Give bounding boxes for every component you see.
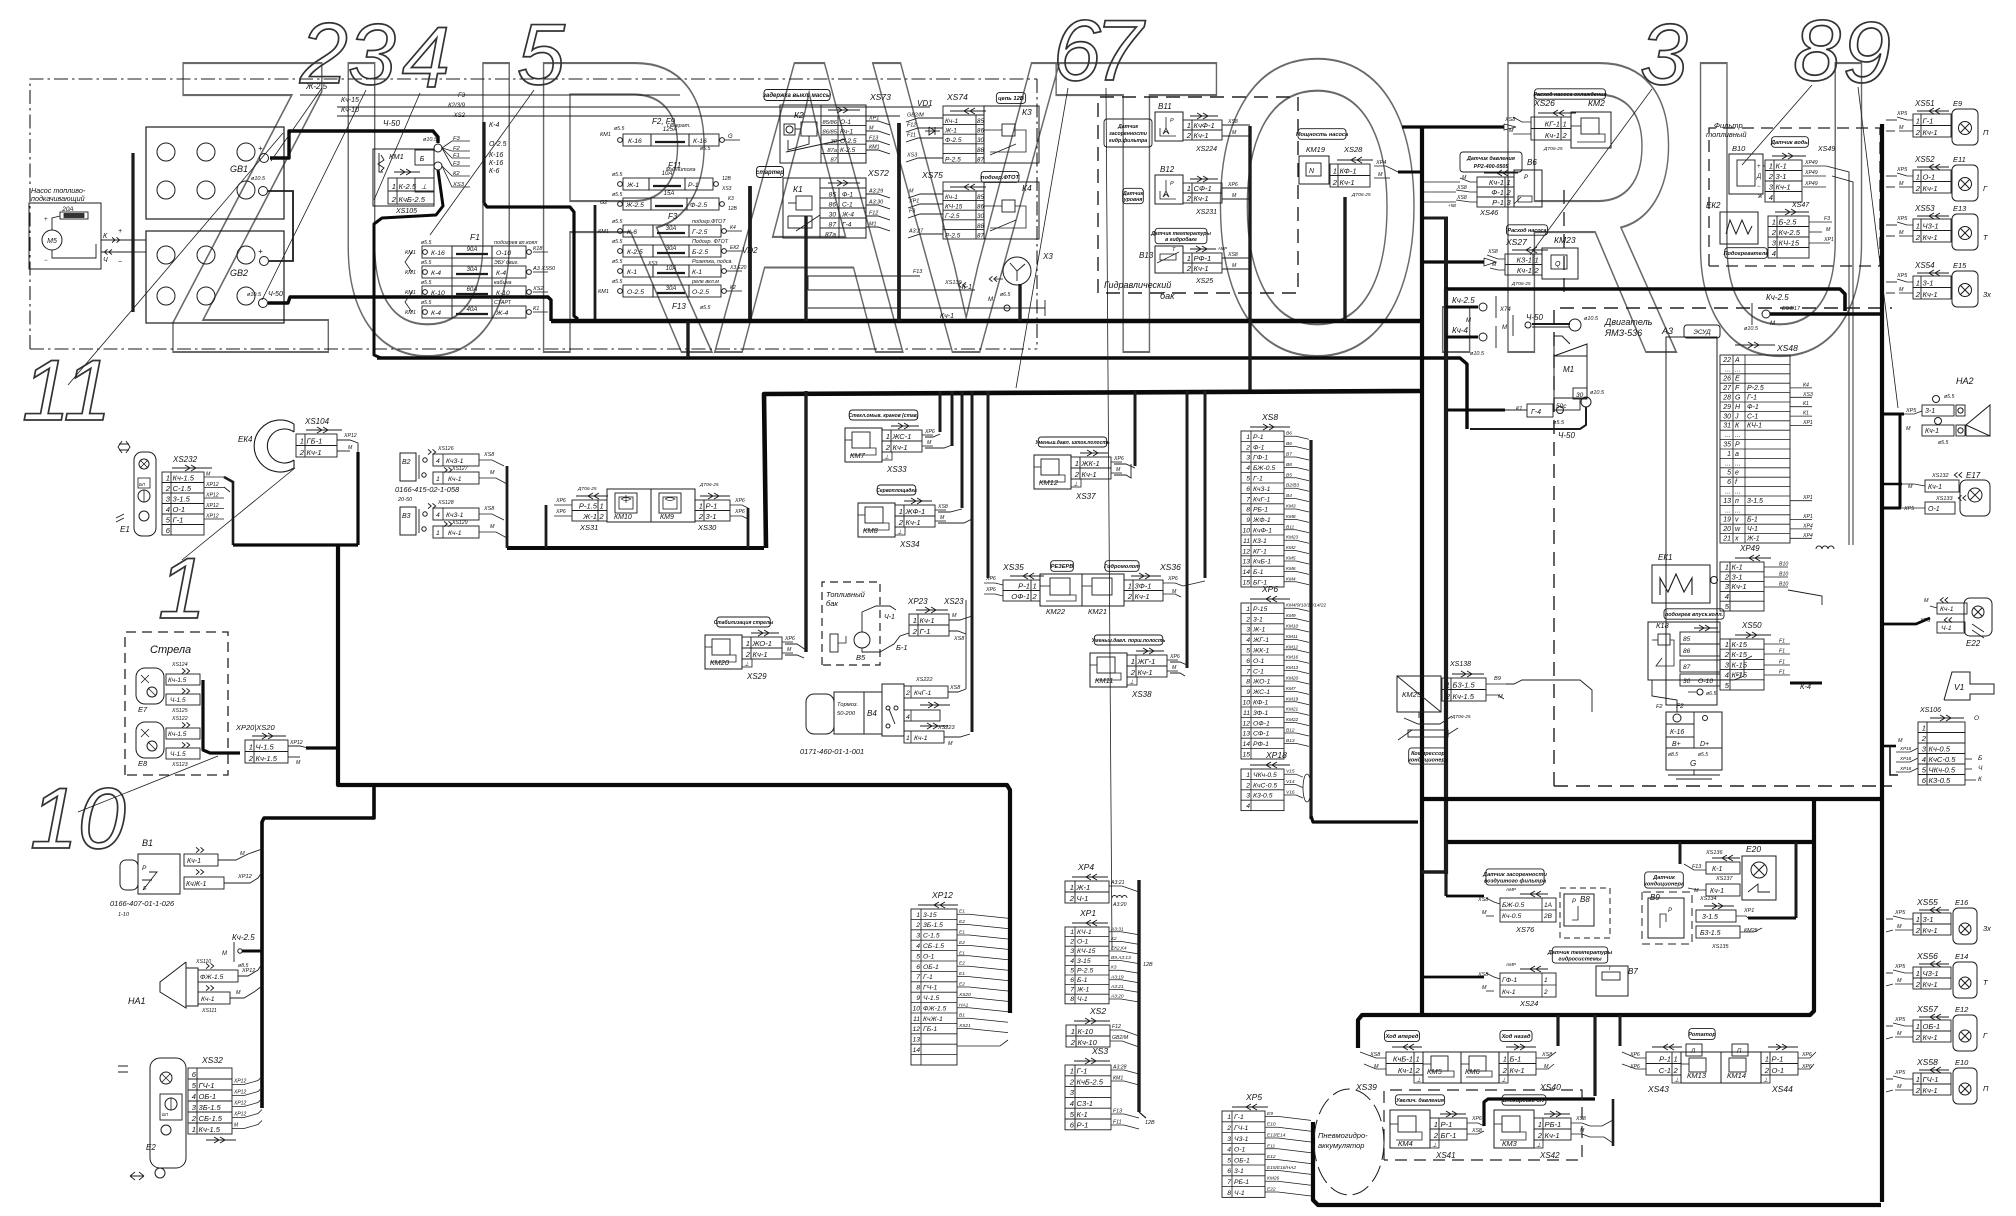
svg-text:Ж-1: Ж-1 [1746, 536, 1760, 543]
svg-text:Кч-1: Кч-1 [1940, 606, 1954, 613]
svg-text:ХР49: ХР49 [1804, 170, 1818, 176]
svg-text:11: 11 [1243, 710, 1250, 717]
svg-text:3-1.5: 3-1.5 [1747, 498, 1763, 505]
riser E20 x1680 [1679, 842, 1682, 864]
svg-text:ХР1: ХР1 [908, 199, 919, 205]
svg-text:2: 2 [745, 650, 751, 659]
svg-text:кабина: кабина [494, 280, 512, 286]
svg-text:ХР5: ХР5 [1896, 273, 1908, 279]
relay K3 box [984, 106, 1039, 163]
svg-text:⊥: ⊥ [1674, 1077, 1679, 1084]
svg-text:КМ2: КМ2 [1588, 98, 1605, 108]
svg-text:Е10: Е10 [1267, 1122, 1276, 1128]
svg-text:О-1: О-1 [1253, 658, 1265, 665]
svg-text:М: М [236, 990, 241, 996]
svg-text:К-1: К-1 [1776, 161, 1787, 170]
svg-text:XS38: XS38 [1131, 690, 1152, 699]
svg-text:К-4: К-4 [431, 310, 441, 317]
svg-text:4: 4 [1246, 637, 1250, 644]
svg-text:КМ11: КМ11 [1286, 634, 1298, 640]
svg-text:F3: F3 [458, 93, 466, 99]
svg-text:F3: F3 [1824, 216, 1830, 222]
svg-text:4: 4 [1725, 592, 1729, 601]
svg-text:К3: К3 [728, 196, 734, 202]
svg-text:87: 87 [829, 221, 837, 228]
svg-text:30: 30 [1723, 413, 1731, 420]
svg-text:С-1: С-1 [1747, 413, 1758, 420]
svg-text:С-1: С-1 [1253, 668, 1264, 675]
svg-text:12: 12 [1242, 720, 1250, 727]
svg-text:О-1: О-1 [1923, 172, 1936, 181]
svg-text:М: М [909, 189, 914, 195]
svg-text:1: 1 [1507, 178, 1511, 187]
svg-text:XS110: XS110 [195, 959, 211, 965]
svg-text:КчБ-2.5: КчБ-2.5 [399, 195, 426, 204]
XS75 table [950, 186, 986, 188]
svg-text:М5: М5 [47, 238, 57, 245]
svg-text:30: 30 [977, 137, 984, 144]
svg-text:1: 1 [600, 501, 604, 510]
svg-text:Ч-1.5: Ч-1.5 [170, 697, 186, 704]
svg-text:М: М [1172, 665, 1177, 671]
svg-text:ø5.5: ø5.5 [612, 239, 622, 245]
svg-text:9: 9 [1246, 517, 1250, 524]
svg-text:12В: 12В [1143, 962, 1153, 968]
svg-text:2: 2 [1245, 782, 1250, 789]
svg-text:В7: В7 [1628, 967, 1638, 976]
svg-text:2: 2 [391, 195, 397, 204]
bus y1099 KM4/KM3 [1484, 1099, 1595, 1126]
svg-text:засоренности: засоренности [1109, 131, 1148, 137]
svg-text:1: 1 [1227, 1114, 1231, 1121]
svg-text:4: 4 [1772, 249, 1776, 258]
svg-text:КМ10: КМ10 [614, 514, 632, 521]
svg-text:ЕК2: ЕК2 [1706, 201, 1721, 210]
svg-text:3-1: 3-1 [1253, 616, 1263, 623]
svg-text:XS8: XS8 [1575, 1116, 1586, 1122]
svg-text:XS222: XS222 [915, 677, 933, 683]
svg-text:ø5.5: ø5.5 [1944, 394, 1954, 400]
svg-text:Р-2.5: Р-2.5 [1077, 967, 1093, 974]
svg-text:1: 1 [1246, 772, 1250, 779]
svg-text:1: 1 [1070, 929, 1074, 936]
svg-text:Кч-1: Кч-1 [945, 194, 958, 201]
svg-text:ø6.5: ø6.5 [1706, 691, 1716, 697]
svg-text:О: О [1974, 715, 1979, 722]
svg-text:XS75: XS75 [921, 170, 943, 180]
svg-text:М1: М1 [1563, 365, 1574, 374]
svg-text:2: 2 [299, 448, 305, 457]
relay K2 (задержка выкл. массы) [764, 90, 830, 101]
svg-text:М: М [490, 470, 495, 476]
svg-text:12: 12 [912, 1026, 920, 1033]
svg-text:Кч-1: Кч-1 [1928, 484, 1942, 491]
svg-text:Кч-1: Кч-1 [840, 128, 853, 135]
svg-text:3: 3 [1246, 793, 1250, 800]
svg-text:В+: В+ [1672, 741, 1681, 748]
svg-text:...: ... [1735, 366, 1741, 373]
svg-text:Кч-1: Кч-1 [1398, 1066, 1413, 1075]
svg-text:V1: V1 [1954, 682, 1965, 692]
svg-text:4: 4 [1070, 958, 1074, 965]
svg-text:XS25: XS25 [1195, 278, 1213, 285]
svg-text:К3-1: К3-1 [1517, 255, 1532, 264]
svg-text:v: v [1735, 517, 1739, 524]
svg-text:3: 3 [1227, 1136, 1231, 1143]
svg-text:СТАРТ: СТАРТ [494, 300, 512, 306]
relay K1 (стартер) [757, 167, 784, 178]
svg-text:1: 1 [1071, 1027, 1075, 1036]
svg-text:бак: бак [1160, 291, 1175, 301]
svg-text:ЕК1: ЕК1 [1658, 553, 1673, 562]
svg-text:Кч-1: Кч-1 [1340, 178, 1355, 187]
svg-text:Кч-1.5: Кч-1.5 [168, 677, 187, 684]
svg-text:КМ8: КМ8 [1286, 514, 1296, 520]
svg-text:К-4: К-4 [489, 122, 499, 129]
svg-text:АМР: АМР [1505, 887, 1517, 892]
riser XS40 x1558 [1556, 1015, 1559, 1046]
svg-text:ХР5: ХР5 [1894, 910, 1906, 916]
K1 pin table XS72 [819, 178, 821, 238]
svg-text:1: 1 [1075, 459, 1079, 468]
svg-text:ХР6: ХР6 [784, 636, 795, 642]
svg-text:Кч-0.5: Кч-0.5 [1929, 744, 1951, 753]
terminal Г-4 К1 [1527, 404, 1553, 417]
svg-text:Кч-1: Кч-1 [914, 735, 928, 742]
svg-text:Х74: Х74 [1499, 307, 1511, 313]
svg-text:КМ7: КМ7 [1286, 686, 1296, 692]
svg-text:3Ф-1: 3Ф-1 [1253, 710, 1268, 717]
svg-text:V15: V15 [1286, 769, 1295, 775]
svg-text:Кч-1: Кч-1 [1732, 582, 1747, 591]
svg-text:V14: V14 [1286, 779, 1295, 785]
GB2 minus terminal [259, 299, 268, 308]
svg-text:Ф-1: Ф-1 [842, 191, 853, 198]
svg-text:В13: В13 [1139, 251, 1154, 260]
svg-text:+5В: +5В [1448, 203, 1456, 208]
svg-text:Ч-1: Ч-1 [1747, 526, 1758, 533]
relay KM12 connector XS37 (уменьш.давл. штокл.полость) [1038, 437, 1107, 447]
svg-text:КМ5: КМ5 [1427, 1067, 1443, 1076]
svg-text:F11: F11 [907, 133, 916, 139]
svg-text:М: М [490, 524, 495, 530]
right column main vertical bus x1882 [1880, 124, 1884, 1202]
KM23 thick stub from riser [1424, 260, 1484, 263]
svg-text:Кч-1: Кч-1 [1545, 1131, 1560, 1140]
svg-text:Е7: Е7 [138, 705, 148, 714]
svg-text:Е2: Е2 [146, 1143, 156, 1152]
svg-text:бак: бак [826, 599, 838, 608]
svg-text:4: 4 [1246, 803, 1250, 810]
svg-text:10: 10 [1242, 528, 1250, 535]
svg-text:1: 1 [1535, 255, 1539, 264]
svg-text:1: 1 [1765, 1054, 1769, 1063]
svg-text:КЧ-15: КЧ-15 [945, 204, 963, 211]
svg-text:12В: 12В [728, 206, 738, 212]
svg-text:ДТ06-25: ДТ06-25 [1351, 192, 1371, 198]
svg-text:3Б-1.5: 3Б-1.5 [923, 922, 943, 929]
bus riser x899 (XS72/73 area) [897, 123, 901, 321]
svg-text:К1: К1 [1803, 411, 1809, 417]
svg-text:2: 2 [248, 754, 254, 763]
svg-text:8: 8 [1793, 3, 1841, 99]
KM3 riser x1613 [1612, 1099, 1615, 1146]
svg-text:Кч-1: Кч-1 [940, 313, 954, 320]
svg-text:М: М [348, 445, 353, 451]
svg-text:XS8: XS8 [1456, 195, 1467, 201]
svg-text:4: 4 [1070, 1099, 1074, 1108]
svg-text:ХР5: ХР5 [1896, 111, 1908, 117]
Кч-2.5 stub with terminal X74 [1446, 306, 1478, 309]
svg-text:XS3: XS3 [721, 186, 732, 192]
svg-text:КМ13: КМ13 [1687, 1071, 1707, 1080]
GB1 plus terminal [260, 154, 269, 163]
svg-text:⊥: ⊥ [1536, 1142, 1541, 1149]
svg-text:87а: 87а [825, 231, 836, 238]
svg-text:К-16: К-16 [489, 152, 503, 159]
svg-text:Б-2.5: Б-2.5 [1779, 217, 1798, 226]
svg-text:БЛ: БЛ [162, 1112, 169, 1117]
svg-text:КчБ-1: КчБ-1 [1393, 1054, 1413, 1063]
svg-text:КМ2: КМ2 [1286, 545, 1296, 551]
svg-text:ХР49: ХР49 [1739, 544, 1760, 553]
svg-text:К-6: К-6 [489, 168, 499, 175]
svg-text:7: 7 [916, 974, 920, 981]
svg-text:Р: Р [1524, 175, 1528, 181]
svg-text:14: 14 [912, 1047, 920, 1054]
inductor symbol at XS48 w-x rows [1816, 546, 1834, 549]
svg-text:РФ-1: РФ-1 [1194, 254, 1212, 263]
svg-text:ЖФ-1: ЖФ-1 [905, 507, 926, 516]
svg-text:−: − [1757, 184, 1761, 190]
svg-text:F1: F1 [1779, 639, 1785, 645]
svg-text:ХР1: ХР1 [1802, 514, 1813, 520]
svg-text:Уменьш.давл. порш.полость: Уменьш.давл. порш.полость [1092, 638, 1166, 644]
svg-text:Пневмогидро-: Пневмогидро- [1318, 1131, 1368, 1140]
svg-text:КчФ-1: КчФ-1 [1253, 528, 1272, 535]
svg-text:ХР5: ХР5 [1894, 1017, 1906, 1023]
svg-text:Г-1: Г-1 [1747, 395, 1757, 402]
svg-text:3Ф-1: 3Ф-1 [1135, 581, 1152, 590]
svg-text:ø10.5: ø10.5 [423, 137, 438, 143]
svg-text:Кч-1: Кч-1 [1517, 266, 1532, 275]
svg-text:Тормоз.: Тормоз. [837, 702, 858, 708]
valve KM4 XS41 [1390, 1110, 1430, 1148]
XS222 riser thin [965, 600, 967, 689]
svg-text:6: 6 [916, 964, 920, 971]
svg-text:Ж-1: Ж-1 [626, 182, 639, 189]
svg-text:2: 2 [1915, 1033, 1921, 1042]
svg-text:Е9/Е17: Е9/Е17 [1782, 306, 1801, 312]
svg-text:7: 7 [1246, 496, 1250, 503]
svg-text:V16: V16 [1286, 790, 1295, 796]
thick label-bus horizontal y207 [484, 203, 578, 319]
svg-text:Кч-1: Кч-1 [1925, 428, 1939, 435]
svg-text:Стрела: Стрела [150, 644, 191, 656]
svg-text:1: 1 [1916, 969, 1920, 978]
svg-text:2: 2 [1070, 1038, 1076, 1047]
riser from KM1 XS3 wire to H1 x595 [594, 205, 597, 319]
svg-text:15А: 15А [664, 191, 675, 197]
svg-text:7: 7 [1070, 987, 1074, 994]
svg-text:10: 10 [1242, 700, 1250, 707]
svg-text:Б-1: Б-1 [1077, 977, 1088, 984]
svg-text:12В: 12В [722, 176, 732, 182]
svg-text:Ч3-1: Ч3-1 [1923, 969, 1939, 978]
svg-text:GB2/М: GB2/М [907, 113, 924, 119]
svg-text:Е1: Е1 [120, 525, 130, 534]
svg-text:воздушного фильтра: воздушного фильтра [1484, 878, 1546, 885]
svg-text:КМ21: КМ21 [1088, 607, 1107, 616]
lamp cluster stub wires [1886, 119, 1897, 121]
svg-text:Г-4: Г-4 [842, 221, 852, 228]
svg-text:9: 9 [916, 995, 920, 1002]
svg-text:Р: Р [1170, 181, 1174, 187]
caption Подогреватель [1725, 248, 1767, 259]
svg-text:1: 1 [300, 436, 304, 445]
svg-text:Е9: Е9 [1953, 99, 1963, 108]
svg-text:кондиционера: кондиционера [1644, 882, 1684, 888]
svg-text:М1: М1 [869, 222, 877, 228]
svg-text:К1: К1 [533, 306, 539, 312]
svg-text:F13: F13 [1113, 1109, 1122, 1115]
svg-text:Р: Р [142, 865, 147, 872]
svg-text:−: − [118, 259, 122, 266]
hydraulic tank dashed box (Гидравлический бак) [1098, 97, 1298, 293]
svg-text:Р-2.5: Р-2.5 [945, 232, 961, 239]
svg-text:Г-1: Г-1 [1077, 1067, 1088, 1076]
svg-text:Р: Р [1735, 442, 1740, 449]
svg-text:1: 1 [1674, 1054, 1678, 1063]
caption Датчик давления PP2-400-0505 [1460, 152, 1522, 172]
svg-text:О-1: О-1 [1234, 1147, 1246, 1154]
svg-text:С-1: С-1 [1659, 1066, 1671, 1075]
svg-text:9: 9 [1246, 689, 1250, 696]
svg-text:В9,А3:13: В9,А3:13 [1111, 955, 1131, 961]
svg-text:БЛ: БЛ [139, 482, 146, 487]
svg-text:XS123: XS123 [171, 762, 188, 768]
svg-text:1: 1 [1416, 1054, 1420, 1063]
svg-text:Ф-2.5: Ф-2.5 [690, 202, 707, 209]
svg-text:ДТ06-25: ДТ06-25 [699, 482, 719, 488]
svg-text:Ж-4: Ж-4 [841, 211, 854, 218]
svg-text:4: 4 [1246, 465, 1250, 472]
svg-text:НА1: НА1 [128, 996, 146, 1006]
svg-text:В5: В5 [856, 653, 866, 662]
svg-text:Ч-1: Ч-1 [1077, 996, 1088, 1003]
turn signal lamp E1 [119, 444, 129, 450]
svg-text:+: + [258, 144, 263, 153]
svg-text:4: 4 [1227, 1147, 1231, 1154]
svg-text:Е15/Е16/НА2: Е15/Е16/НА2 [1267, 1165, 1296, 1171]
svg-text:ХР12: ХР12 [931, 890, 953, 900]
svg-text:87: 87 [1683, 664, 1691, 671]
svg-text:БЖ-0.5: БЖ-0.5 [1253, 465, 1275, 472]
svg-text:Ч-50: Ч-50 [1526, 313, 1544, 322]
svg-text:⊥: ⊥ [1129, 679, 1134, 686]
svg-text:КЧ-15: КЧ-15 [1077, 948, 1096, 955]
svg-text:27: 27 [1722, 385, 1732, 392]
svg-text:Е14: Е14 [1955, 952, 1968, 961]
caption Увелич. давления [1395, 1095, 1444, 1105]
svg-text:Е22: Е22 [1966, 639, 1981, 648]
svg-text:85: 85 [1683, 636, 1691, 643]
svg-text:М: М [1232, 263, 1237, 269]
svg-text:30: 30 [829, 211, 837, 218]
svg-text:5: 5 [1246, 476, 1250, 483]
svg-text:F12: F12 [869, 211, 878, 217]
svg-text:Ход назад: Ход назад [1501, 1034, 1531, 1040]
svg-text:...: ... [1725, 366, 1731, 373]
svg-text:К-15: К-15 [1732, 650, 1748, 659]
svg-text:J: J [1734, 413, 1739, 420]
svg-text:Расход насоса: Расход насоса [1507, 228, 1546, 234]
svg-text:7: 7 [1227, 1179, 1231, 1186]
svg-text:РЕЗЕРВ: РЕЗЕРВ [1051, 564, 1073, 570]
svg-text:Кч-1: Кч-1 [893, 443, 908, 452]
svg-text:...: ... [1725, 460, 1731, 467]
caption Ротатор [1689, 1029, 1715, 1040]
svg-text:F3: F3 [453, 136, 461, 142]
svg-text:подкачивающий: подкачивающий [31, 194, 85, 203]
svg-text:XS111: XS111 [201, 1008, 217, 1014]
svg-text:⊥: ⊥ [897, 529, 902, 536]
svg-text:87: 87 [977, 232, 984, 239]
svg-text:ГЧ-1: ГЧ-1 [1234, 1125, 1249, 1132]
svg-text:2: 2 [1915, 128, 1921, 137]
svg-text:XS129: XS129 [451, 520, 468, 526]
KM2 feed from riser x1446 [1402, 125, 1504, 128]
svg-text:М: М [1906, 426, 1911, 432]
svg-text:В4: В4 [867, 709, 877, 718]
svg-text:ДТ06-25: ДТ06-25 [1451, 714, 1471, 720]
svg-text:3-1: 3-1 [1923, 278, 1934, 287]
svg-text:Кч-1: Кч-1 [1489, 178, 1504, 187]
svg-text:М: М [948, 741, 953, 747]
svg-text:Д: Д [1756, 174, 1762, 180]
svg-text:Е2: Е2 [959, 982, 965, 988]
svg-text:Р: Р [1170, 118, 1174, 124]
svg-text:ХР1: ХР1 [1802, 420, 1813, 426]
svg-text:7: 7 [1095, 3, 1146, 99]
svg-text:Датчик температуры: Датчик температуры [1150, 231, 1211, 237]
caption Мощность насоса [1298, 129, 1346, 140]
svg-text:КМ1: КМ1 [598, 289, 609, 295]
svg-text:Ч-1.5: Ч-1.5 [256, 742, 275, 751]
svg-text:2: 2 [1186, 131, 1192, 140]
svg-text:Сервоплощадка: Сервоплощадка [876, 488, 917, 494]
svg-text:ХР5: ХР5 [1894, 964, 1906, 970]
svg-text:Г-1: Г-1 [1234, 1114, 1244, 1121]
svg-text:М: М [1826, 227, 1831, 233]
svg-text:К2: К2 [453, 171, 460, 177]
svg-text:4: 4 [192, 1092, 196, 1101]
svg-text:Магнитола: Магнитола [666, 167, 696, 173]
dashed box KM4/KM3 valves [1384, 1090, 1582, 1160]
svg-text:4: 4 [916, 943, 920, 950]
svg-text:1: 1 [746, 639, 750, 648]
svg-text:М: М [1897, 978, 1902, 984]
svg-text:В8: В8 [1286, 462, 1292, 468]
svg-text:КчС-0.5: КчС-0.5 [1253, 782, 1277, 789]
svg-text:ОФ-1: ОФ-1 [1011, 592, 1030, 601]
svg-text:Е2: Е2 [959, 919, 965, 925]
svg-text:1: 1 [1916, 915, 1920, 924]
svg-text:ХР12: ХР12 [233, 1090, 246, 1096]
svg-text:НА1: НА1 [959, 1002, 969, 1008]
svg-text:Б3-1.5: Б3-1.5 [1453, 680, 1476, 689]
svg-text:F13: F13 [672, 302, 686, 311]
